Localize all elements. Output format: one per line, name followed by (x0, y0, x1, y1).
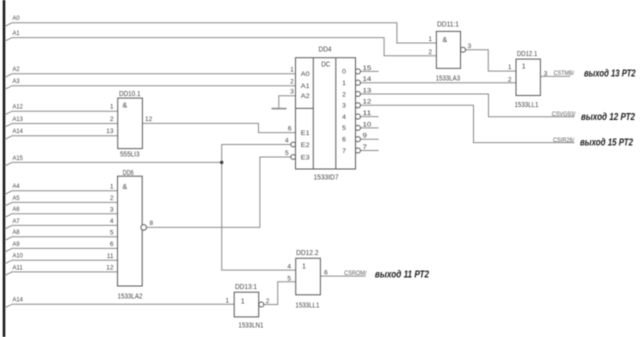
svg-text:7: 7 (342, 148, 346, 155)
svg-text:A14: A14 (13, 297, 24, 304)
svg-text:выход 15 РТ2: выход 15 РТ2 (580, 138, 633, 149)
svg-text:DD12.1: DD12.1 (517, 51, 537, 58)
svg-text:5: 5 (287, 275, 291, 282)
svg-text:E3: E3 (301, 154, 310, 161)
svg-text:A12: A12 (13, 104, 24, 111)
svg-text:CSIR26/: CSIR26/ (553, 137, 574, 144)
svg-text:1533LA2: 1533LA2 (118, 293, 143, 300)
svg-text:CSTMB/: CSTMB/ (554, 70, 575, 77)
svg-text:1: 1 (110, 183, 114, 190)
svg-text:1: 1 (522, 63, 526, 70)
svg-text:A11: A11 (13, 264, 24, 271)
svg-text:2: 2 (110, 195, 114, 202)
svg-text:A4: A4 (13, 183, 20, 190)
svg-text:6: 6 (110, 241, 114, 248)
svg-text:2: 2 (342, 91, 346, 98)
svg-text:6: 6 (342, 137, 346, 144)
svg-text:5: 5 (110, 229, 114, 236)
svg-text:&: & (123, 184, 128, 191)
svg-text:A2: A2 (301, 93, 310, 100)
svg-text:3: 3 (468, 43, 472, 50)
svg-text:2: 2 (290, 79, 294, 86)
svg-text:11: 11 (363, 110, 372, 117)
svg-text:E1: E1 (301, 130, 310, 137)
svg-text:12: 12 (145, 116, 153, 123)
svg-text:6: 6 (288, 125, 292, 132)
svg-text:A9: A9 (13, 241, 20, 248)
svg-text:6: 6 (324, 270, 328, 277)
svg-text:DD13:1: DD13:1 (235, 284, 257, 291)
svg-text:E2: E2 (301, 142, 310, 149)
svg-text:A0: A0 (13, 15, 20, 22)
svg-text:1: 1 (110, 104, 114, 111)
svg-text:12: 12 (106, 265, 114, 272)
svg-text:1: 1 (342, 80, 346, 87)
svg-text:CSROM/: CSROM/ (344, 270, 367, 277)
svg-text:1533LL1: 1533LL1 (515, 102, 539, 109)
svg-text:11: 11 (107, 253, 114, 260)
svg-text:1533ID7: 1533ID7 (314, 174, 339, 181)
svg-text:выход 12 РТ2: выход 12 РТ2 (581, 112, 636, 123)
svg-text:A2: A2 (13, 66, 20, 73)
svg-text:DD10.1: DD10.1 (119, 91, 141, 98)
svg-text:1533LN1: 1533LN1 (238, 322, 263, 329)
svg-text:A14: A14 (13, 128, 24, 135)
svg-text:A5: A5 (13, 195, 20, 202)
svg-text:1: 1 (225, 297, 229, 304)
svg-text:13: 13 (106, 128, 114, 135)
svg-text:DC: DC (321, 61, 330, 68)
svg-text:4: 4 (287, 264, 291, 271)
svg-text:4: 4 (342, 114, 346, 121)
svg-text:4: 4 (285, 137, 289, 144)
svg-text:14: 14 (363, 76, 372, 83)
svg-text:3: 3 (544, 71, 548, 78)
svg-text:12: 12 (363, 99, 372, 106)
svg-text:1: 1 (302, 264, 306, 271)
svg-text:1: 1 (290, 67, 294, 74)
svg-text:DD6: DD6 (123, 170, 134, 177)
svg-text:9: 9 (363, 133, 368, 140)
svg-text:A7: A7 (13, 218, 20, 225)
svg-text:10: 10 (363, 121, 372, 128)
svg-text:&: & (123, 103, 128, 110)
svg-text:4: 4 (110, 218, 114, 225)
svg-text:15: 15 (363, 65, 372, 72)
svg-text:CSVG93/: CSVG93/ (552, 111, 576, 118)
svg-text:5: 5 (342, 125, 346, 132)
svg-text:A10: A10 (13, 253, 24, 260)
svg-text:5: 5 (285, 150, 289, 157)
svg-text:1: 1 (428, 36, 432, 43)
svg-text:1: 1 (508, 64, 512, 71)
svg-text:A3: A3 (13, 78, 20, 85)
svg-text:DD11:1: DD11:1 (437, 22, 459, 29)
svg-text:8: 8 (150, 220, 154, 227)
svg-text:A1: A1 (13, 30, 20, 37)
svg-text:2: 2 (428, 49, 432, 56)
svg-text:2: 2 (266, 298, 270, 305)
svg-text:13: 13 (363, 87, 372, 94)
svg-text:1533LL1: 1533LL1 (295, 303, 319, 310)
svg-text:2: 2 (508, 77, 512, 84)
svg-text:3: 3 (290, 89, 294, 96)
svg-text:&: & (443, 37, 448, 44)
svg-text:A13: A13 (13, 116, 24, 123)
svg-text:A1: A1 (301, 83, 310, 90)
svg-text:7: 7 (363, 144, 368, 151)
svg-text:выход 11 РТ2: выход 11 РТ2 (375, 269, 430, 280)
svg-text:A8: A8 (13, 229, 20, 236)
svg-text:DD4: DD4 (319, 47, 332, 54)
svg-text:555LI3: 555LI3 (120, 151, 140, 158)
svg-text:1533LA3: 1533LA3 (436, 75, 460, 82)
svg-text:DD12.2: DD12.2 (296, 250, 319, 257)
svg-text:2: 2 (110, 116, 114, 123)
svg-text:выход 13 РТ2: выход 13 РТ2 (584, 69, 636, 80)
svg-text:0: 0 (342, 69, 346, 76)
svg-text:1: 1 (241, 299, 245, 306)
svg-text:3: 3 (342, 103, 346, 110)
svg-text:A15: A15 (13, 155, 24, 162)
svg-text:3: 3 (110, 206, 114, 213)
svg-text:A0: A0 (301, 71, 310, 78)
svg-text:A6: A6 (13, 206, 20, 213)
